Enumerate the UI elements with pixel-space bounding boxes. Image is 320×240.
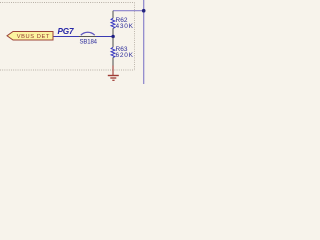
svg-text:620K: 620K (116, 52, 134, 59)
junction node dot (111, 35, 114, 38)
dotted boundary bottom (0, 69, 135, 71)
background (0, 0, 150, 84)
wire vertical right rail (143, 0, 145, 84)
junction dot on rail (142, 9, 146, 13)
resistor R63 pin top (112, 38, 114, 48)
wire horizontal top to rail (113, 10, 144, 12)
resistor R62 pin top (112, 11, 114, 19)
ground bar 3 (112, 79, 114, 81)
net flag VBUS DET (7, 32, 53, 41)
svg-text:VBUS DET: VBUS DET (17, 34, 50, 40)
dotted boundary top (0, 2, 135, 4)
wire flag to SB184 (54, 36, 80, 38)
resistor R63 pin bottom (112, 58, 114, 66)
ground bar 2 (110, 77, 116, 79)
ground bar 1 (108, 75, 119, 77)
svg-text:PG7: PG7 (58, 27, 74, 36)
resistor R62 pin bottom (112, 28, 114, 35)
solder bridge SB184 pins (79, 36, 96, 38)
ground stub (112, 66, 114, 76)
solder bridge SB184 arc (81, 32, 95, 35)
svg-text:430K: 430K (116, 23, 134, 30)
dotted boundary right (134, 3, 136, 71)
wire SB184 to junction (96, 36, 113, 38)
svg-text:SB184: SB184 (80, 40, 98, 46)
resistor R63 zigzag (111, 47, 115, 57)
resistor R62 zigzag (111, 18, 115, 28)
